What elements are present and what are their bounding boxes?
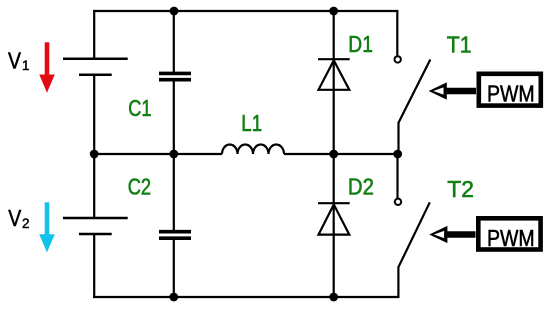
wire left column upper (V1 positive lead) xyxy=(93,10,95,59)
wire capacitor column lower (C2 bottom lead) xyxy=(173,240,175,298)
wire switch T1 lower lead xyxy=(397,122,399,154)
switch T2 open contact circle xyxy=(395,199,401,205)
wire switch column upper (top rail to T1 contact) xyxy=(396,10,398,56)
svg-text:D1: D1 xyxy=(348,31,373,57)
wire middle rail right (inductor to switch node) xyxy=(284,153,398,155)
wire bottom rail xyxy=(93,296,398,298)
junction node mid-left xyxy=(90,150,99,159)
junction node mid-D xyxy=(329,150,338,159)
wire capacitor column upper (C1 top lead) xyxy=(173,10,175,72)
battery V1 long plate xyxy=(63,58,128,61)
PWM arrow T1 head xyxy=(429,82,447,99)
svg-text:D2: D2 xyxy=(348,173,374,199)
PWM arrow T2 head xyxy=(429,226,447,243)
diode D2 cathode bar xyxy=(318,202,350,204)
junction node bottom-C2 xyxy=(169,293,178,302)
wire left column lower (V2 negative lead) xyxy=(93,234,95,298)
svg-text:V: V xyxy=(8,47,22,73)
battery V2 short plate xyxy=(79,233,112,236)
wire diode column upper (through D1) xyxy=(333,10,335,154)
wire switch T2 upper lead (mid node to T2 contact) xyxy=(396,154,398,198)
wire middle rail left (mid node to inductor) xyxy=(94,153,222,155)
inductor L1 xyxy=(222,145,284,155)
battery V1 short plate xyxy=(79,74,112,77)
svg-text:2: 2 xyxy=(22,216,30,231)
wire capacitor column middle (C1 bottom to C2 top) xyxy=(173,81,175,230)
capacitor C2 top plate xyxy=(159,230,191,234)
junction node mid-C xyxy=(169,150,178,159)
switch T1 lever xyxy=(399,60,431,123)
capacitor C1 top plate xyxy=(159,72,191,76)
capacitor C1 bottom plate xyxy=(159,78,191,82)
svg-text:PWM: PWM xyxy=(487,225,535,251)
svg-text:C1: C1 xyxy=(128,95,151,121)
wire switch T2 lower lead xyxy=(397,267,399,299)
svg-text:V: V xyxy=(8,205,22,231)
svg-text:1: 1 xyxy=(22,58,30,73)
junction node top-D1 xyxy=(329,7,338,16)
svg-text:T1: T1 xyxy=(447,32,472,58)
PWM arrow T2 shaft xyxy=(445,231,476,238)
cyan arrow V2 polarity xyxy=(39,202,55,252)
PWM box T1 xyxy=(479,74,541,106)
svg-text:PWM: PWM xyxy=(487,81,535,107)
PWM arrow T1 shaft xyxy=(445,88,477,95)
battery V2 long plate xyxy=(63,217,128,220)
switch T2 lever xyxy=(398,202,429,267)
svg-text:C2: C2 xyxy=(128,173,151,199)
diode D2 triangle xyxy=(319,205,350,235)
svg-text:T2: T2 xyxy=(447,176,474,202)
junction node mid-T xyxy=(393,150,402,159)
PWM box T2 xyxy=(478,218,540,249)
switch T1 open contact circle xyxy=(395,56,401,62)
diode D1 cathode bar xyxy=(318,58,350,60)
wire diode column lower (through D2) xyxy=(333,154,335,298)
wire left column middle (V1 negative lead to mid rail) xyxy=(93,75,95,218)
diode D1 triangle xyxy=(319,60,350,89)
red arrow V1 polarity xyxy=(39,42,55,93)
junction node bottom-D2 xyxy=(329,293,338,302)
junction node top-C1 xyxy=(170,7,179,16)
capacitor C2 bottom plate xyxy=(159,236,191,240)
wire top rail xyxy=(93,10,398,12)
svg-text:L1: L1 xyxy=(241,110,262,136)
